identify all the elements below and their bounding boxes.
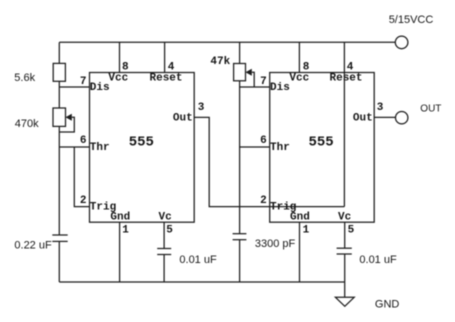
- svg-text:Out: Out: [353, 113, 373, 125]
- svg-text:7: 7: [80, 76, 87, 88]
- wire R2 wiper loop: [59, 117, 74, 132]
- svg-text:555: 555: [129, 134, 154, 150]
- wire Trig row inside U2: [270, 206, 345, 208]
- svg-text:5: 5: [166, 224, 173, 236]
- svg-text:3300 pF: 3300 pF: [255, 238, 296, 250]
- svg-text:OUT: OUT: [420, 104, 441, 115]
- wire pin8 U1: [119, 42, 121, 72]
- svg-text:2: 2: [80, 195, 87, 207]
- wire bottom ground rail: [59, 281, 344, 283]
- capacitor C2 0.01uF: [157, 249, 171, 255]
- wire below 5.6k to pot: [58, 81, 60, 108]
- wire Out pin3 U1 to Trig U2: [194, 117, 270, 206]
- svg-text:5/15VCC: 5/15VCC: [389, 14, 434, 26]
- terminal OUT: [396, 112, 408, 124]
- wire Dis pin7 U1: [59, 86, 89, 88]
- wire pot 47k bottom down to C3: [239, 81, 241, 234]
- wire pin4 U2 down to Trig row: [343, 42, 345, 206]
- resistor R1 5.6k: [53, 63, 65, 81]
- svg-text:Reset: Reset: [330, 73, 363, 85]
- wire Out pin3 U2: [374, 116, 395, 118]
- svg-text:0.01 uF: 0.01 uF: [359, 254, 397, 266]
- svg-text:Dis: Dis: [270, 82, 290, 94]
- wire Dis pin7 U2: [240, 86, 270, 88]
- svg-text:Gnd: Gnd: [290, 211, 310, 223]
- op-amp U2 555 body: [270, 73, 375, 223]
- wire C3 to ground rail: [239, 240, 241, 282]
- potentiometer R2 470k body: [53, 108, 66, 126]
- wire R3 wiper loop: [252, 72, 254, 87]
- svg-text:2: 2: [260, 195, 267, 207]
- wire ground rail to GND symbol: [344, 282, 346, 297]
- svg-text:Thr: Thr: [270, 142, 290, 154]
- svg-text:GND: GND: [375, 299, 400, 311]
- svg-text:Gnd: Gnd: [110, 211, 130, 223]
- wire pin5 U2 to C4: [344, 222, 346, 248]
- wire C2 to ground rail: [163, 255, 165, 283]
- svg-text:Out: Out: [173, 113, 193, 125]
- svg-text:Reset: Reset: [150, 73, 183, 85]
- ground symbol: [335, 297, 354, 306]
- svg-text:47k: 47k: [210, 56, 230, 68]
- svg-text:3: 3: [198, 102, 205, 114]
- wire C1 to ground rail: [58, 241, 60, 282]
- wire pin1 U1 to ground rail: [119, 222, 121, 282]
- wire pin8 U2: [298, 42, 300, 72]
- op-amp U1 555 body: [90, 73, 195, 223]
- svg-text:5.6k: 5.6k: [14, 72, 35, 84]
- potentiometer R3 47k body: [234, 64, 246, 81]
- wire C4 to ground rail: [344, 254, 346, 282]
- terminal 5/15VCC: [395, 36, 408, 49]
- svg-text:3: 3: [377, 102, 384, 114]
- wire Thr pin6 U1: [59, 146, 89, 148]
- svg-text:6: 6: [80, 135, 87, 147]
- svg-text:555: 555: [309, 134, 334, 150]
- svg-text:0.01 uF: 0.01 uF: [179, 254, 217, 266]
- wire 5.6k drop from rail: [58, 42, 60, 63]
- potentiometer R3 wiper arrow: [246, 69, 252, 76]
- wire 47k drop from rail: [239, 42, 241, 63]
- wire pot bottom down to C1: [58, 126, 60, 235]
- capacitor C1 0.22uF: [52, 235, 67, 241]
- svg-text:Dis: Dis: [90, 82, 110, 94]
- svg-text:0.22 uF: 0.22 uF: [14, 239, 52, 251]
- svg-text:Vcc: Vcc: [289, 73, 309, 85]
- wire top VCC rail: [59, 41, 395, 43]
- svg-text:6: 6: [260, 135, 267, 147]
- svg-text:5: 5: [348, 224, 355, 236]
- wire Thr pin6 U2: [240, 146, 270, 148]
- wire pin5 U1 to C2: [163, 222, 165, 248]
- svg-text:1: 1: [122, 224, 129, 236]
- svg-text:Vc: Vc: [338, 211, 351, 223]
- svg-text:Vc: Vc: [159, 211, 172, 223]
- svg-text:7: 7: [260, 76, 267, 88]
- wire pin4 U1: [164, 42, 166, 72]
- wire pin1 U2 to ground rail: [299, 222, 301, 282]
- wire Trig drop U1: [74, 147, 89, 207]
- svg-text:1: 1: [303, 224, 310, 236]
- svg-text:470k: 470k: [15, 118, 39, 130]
- svg-text:Thr: Thr: [90, 142, 110, 154]
- capacitor C4 0.01uF: [337, 248, 352, 254]
- capacitor C3 3300pF: [233, 234, 247, 240]
- svg-text:Vcc: Vcc: [108, 73, 128, 85]
- potentiometer R2 wiper arrow: [66, 114, 72, 121]
